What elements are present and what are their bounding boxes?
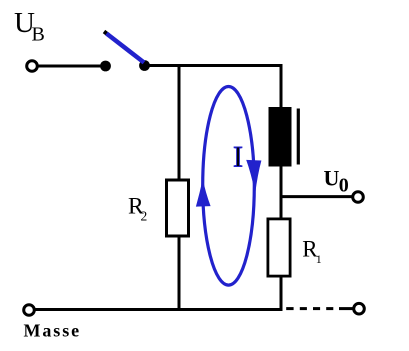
svg-text:B: B [32, 24, 45, 46]
svg-text:Masse: Masse [24, 321, 82, 341]
svg-text:1: 1 [316, 252, 322, 266]
svg-text:2: 2 [141, 209, 148, 224]
svg-text:U: U [324, 166, 340, 191]
svg-text:0: 0 [339, 174, 349, 196]
svg-text:I: I [233, 141, 243, 174]
